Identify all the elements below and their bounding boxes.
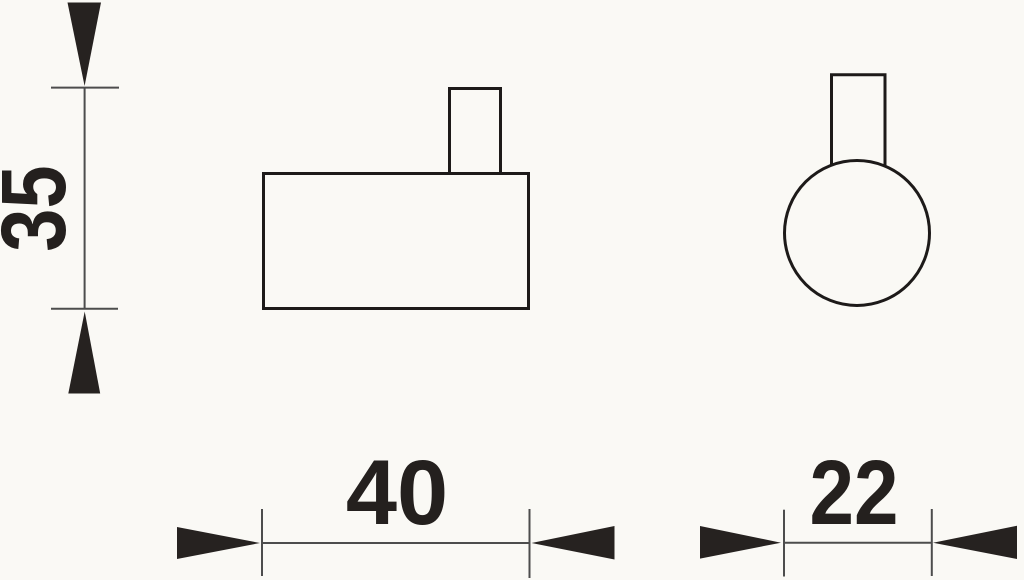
- svg-text:22: 22: [809, 442, 898, 544]
- dim 35 bottom tick: [51, 308, 118, 310]
- dim 22 right tick: [931, 509, 933, 576]
- hook side view stem: [450, 89, 501, 174]
- dim 35 top arrow: [68, 3, 102, 87]
- dim 40 right tick: [529, 509, 531, 578]
- dim 40 left tick: [261, 509, 263, 576]
- dim 22 line: [784, 542, 931, 544]
- dim 22 left tick: [783, 510, 785, 577]
- hook side view body: [264, 174, 529, 309]
- dim 35 top tick: [51, 87, 119, 89]
- dim 40 right arrow: [532, 526, 615, 560]
- hook front view circle: [785, 161, 930, 306]
- svg-text:35: 35: [0, 165, 86, 251]
- dim 22 left arrow: [700, 526, 781, 559]
- dim 40 left arrow: [177, 527, 260, 559]
- dim 40 line: [262, 542, 530, 544]
- dim 22 right arrow: [933, 526, 1017, 559]
- svg-text:40: 40: [346, 442, 448, 544]
- hook front view stem: [832, 75, 886, 180]
- dim 35 bottom arrow: [68, 312, 100, 394]
- dim 35 line: [84, 88, 86, 309]
